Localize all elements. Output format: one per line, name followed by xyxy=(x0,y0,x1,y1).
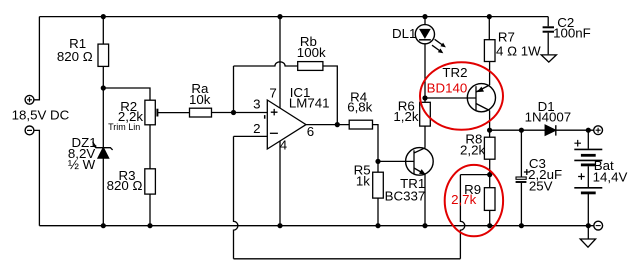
wire feedback to Rb with hop over pin7 line xyxy=(234,62,298,66)
wire bottom rail xyxy=(39,225,593,227)
svg-text:BC337: BC337 xyxy=(385,189,426,204)
svg-text:100k: 100k xyxy=(297,45,326,60)
wire LED node to TR2 base xyxy=(425,97,476,99)
resistor R8 xyxy=(484,137,495,159)
label R4 xyxy=(347,89,372,114)
wire R8 bottom to divider node xyxy=(489,159,491,174)
wire TR2 collector down to node xyxy=(489,111,491,131)
wire R9 bottom to bottom rail xyxy=(489,210,491,225)
ground below C2 xyxy=(541,55,556,62)
LED DL1 emission arrows xyxy=(432,39,446,53)
resistor R6 xyxy=(420,102,431,126)
pin number 7 xyxy=(269,86,276,101)
battery Bat xyxy=(574,149,602,193)
wire R4 to TR1 base node xyxy=(373,125,379,162)
wire from -input terminal down to bottom rail xyxy=(34,130,40,225)
label TR1 xyxy=(385,176,426,204)
zener diode DZ1 xyxy=(94,145,113,158)
resistor Rb xyxy=(298,62,323,71)
plus mark battery top cell xyxy=(574,140,581,147)
wire R7 bottom to TR2 emitter xyxy=(489,62,491,86)
terminal + input xyxy=(25,95,34,104)
wire TR1 collector to R6 xyxy=(424,126,426,148)
wire R5 bottom to bottom rail xyxy=(377,198,379,226)
svg-text:R7: R7 xyxy=(498,30,515,45)
wire R7 top xyxy=(488,17,490,40)
resistor R3 xyxy=(145,169,156,194)
wire C3 bottom to bottom rail xyxy=(520,183,522,226)
resistor R4 xyxy=(349,120,372,129)
label DZ1 xyxy=(68,135,97,172)
wire R8 top xyxy=(489,130,491,137)
LED DL1 xyxy=(415,17,434,98)
wire battery top xyxy=(587,130,589,149)
terminal - output xyxy=(594,221,603,230)
resistor Ra xyxy=(190,108,212,117)
label IC1 LM741 xyxy=(289,85,330,110)
label R3 xyxy=(107,168,143,193)
label R8 xyxy=(460,132,485,158)
svg-text:Trim Lin: Trim Lin xyxy=(108,122,140,132)
svg-text:2,2k: 2,2k xyxy=(460,143,485,158)
label R9 xyxy=(464,182,481,197)
svg-text:6,8k: 6,8k xyxy=(347,100,372,115)
junction node dots xyxy=(101,14,591,228)
wire Rb right down to output node xyxy=(323,66,337,125)
op-amp tick mark xyxy=(264,115,266,119)
svg-text:6: 6 xyxy=(307,124,314,139)
wire C2 drop from top rail xyxy=(547,17,549,27)
label Bat xyxy=(593,158,628,184)
resistor R1 xyxy=(98,44,109,66)
wire top rail xyxy=(39,16,548,18)
trimmer resistor R2 xyxy=(145,100,155,125)
label R7 xyxy=(496,30,541,59)
wire feedback left vertical xyxy=(233,66,235,113)
label C2 xyxy=(553,15,591,41)
ground below battery xyxy=(580,239,595,247)
wire D1 cathode to battery node and + terminal xyxy=(556,129,594,131)
resistor R7 xyxy=(484,40,495,62)
label R1 xyxy=(57,36,93,64)
svg-text:18,5V DC: 18,5V DC xyxy=(12,107,70,122)
wire DZ1 cathode xyxy=(102,88,104,148)
wire Ra to node pin3 xyxy=(212,112,234,114)
terminal - input xyxy=(25,126,34,135)
op-amp plus input marker xyxy=(271,109,278,116)
wire op-amp pin 7 supply xyxy=(279,17,281,109)
svg-text:1N4007: 1N4007 xyxy=(525,110,572,125)
pin number 4 xyxy=(280,138,287,153)
wire battery bottom to rail xyxy=(587,193,589,226)
wire R3 bottom to bottom rail xyxy=(149,194,151,226)
wire R1 top xyxy=(102,17,104,44)
label DL1 xyxy=(392,26,416,41)
svg-text:14,4V: 14,4V xyxy=(593,169,628,184)
svg-text:4: 4 xyxy=(280,138,287,153)
wire op-amp pin 2 input xyxy=(234,135,268,137)
svg-text:25V: 25V xyxy=(529,179,553,194)
wire lower return run xyxy=(234,258,461,260)
label 2,7k red xyxy=(451,192,476,207)
svg-text:½ W: ½ W xyxy=(68,157,96,172)
label C3 xyxy=(528,156,562,194)
svg-text:3: 3 xyxy=(253,97,260,112)
wire R9 top xyxy=(489,175,491,188)
wire node to R5 top xyxy=(377,161,379,172)
label TR2 xyxy=(442,65,467,80)
wire ground stub below battery xyxy=(587,226,589,239)
wire up to divider node with hop over bottom rail xyxy=(460,175,464,259)
wire from +input terminal up to top rail xyxy=(34,17,40,100)
annotation ellipse around TR2 xyxy=(420,62,503,130)
wiper tap R2 xyxy=(157,109,189,117)
pin number 2 xyxy=(253,121,260,136)
svg-text:1,2k: 1,2k xyxy=(393,109,418,124)
wire pin2 down with hop over bottom rail xyxy=(234,136,238,258)
capacitor C2 xyxy=(543,27,554,54)
label BD140 red xyxy=(427,81,468,96)
svg-text:4 Ω 1W: 4 Ω 1W xyxy=(496,43,541,58)
capacitor C3 xyxy=(516,177,527,182)
svg-text:DL1: DL1 xyxy=(392,26,416,41)
svg-text:1k: 1k xyxy=(356,174,370,189)
svg-text:820 Ω: 820 Ω xyxy=(107,178,143,193)
resistor R5 xyxy=(373,172,384,198)
wire node to op-amp pin 3 xyxy=(234,112,268,114)
svg-text:820 Ω: 820 Ω xyxy=(57,49,93,64)
svg-text:2,7k: 2,7k xyxy=(451,192,476,207)
wire R2 bottom to R3 top xyxy=(149,125,151,169)
pin number 6 xyxy=(307,124,314,139)
wire node to R2 top xyxy=(103,88,150,100)
wire op-amp output pin 6 xyxy=(306,124,349,126)
annotation ellipse around R9 xyxy=(445,165,503,236)
leader line DZ1 label xyxy=(93,142,97,147)
svg-text:100nF: 100nF xyxy=(553,26,591,41)
wire collector node to D1 anode xyxy=(490,129,546,131)
svg-text:10k: 10k xyxy=(189,92,211,107)
wire R6 top to LED node xyxy=(424,98,426,102)
label Ra xyxy=(189,81,211,107)
wire TR1 emitter to bottom rail xyxy=(424,174,426,226)
wire DZ1 anode to bottom rail xyxy=(102,158,104,226)
label R6 xyxy=(393,99,418,125)
resistor R9 xyxy=(484,188,495,211)
op-amp IC1 LM741 triangle xyxy=(267,100,306,149)
svg-text:BD140: BD140 xyxy=(427,81,468,96)
diode D1 1N4007 xyxy=(545,125,556,135)
plus mark C3 xyxy=(524,169,530,175)
wire node to TR1 base xyxy=(378,160,414,162)
wire divider node to R8/R9 junction xyxy=(460,174,489,176)
wire R1 bottom to node xyxy=(102,66,104,88)
svg-text:7: 7 xyxy=(269,86,276,101)
svg-text:TR2: TR2 xyxy=(442,65,467,80)
plus mark battery mid cell xyxy=(578,173,585,180)
pin number 3 xyxy=(253,97,260,112)
svg-text:2: 2 xyxy=(253,121,260,136)
label D1 xyxy=(525,99,572,125)
svg-text:LM741: LM741 xyxy=(289,95,330,110)
label 18,5V DC xyxy=(12,107,70,122)
terminal + output xyxy=(594,126,603,135)
label Rb xyxy=(297,34,326,60)
op-amp minus input marker xyxy=(270,132,278,134)
label R2 xyxy=(108,99,143,132)
wire C3 top xyxy=(520,130,522,177)
transistor TR1 BC337 xyxy=(406,148,434,176)
wire op-amp pin 4 supply xyxy=(279,141,281,226)
label R5 xyxy=(354,163,371,189)
transistor TR2 BD140 xyxy=(467,84,495,112)
